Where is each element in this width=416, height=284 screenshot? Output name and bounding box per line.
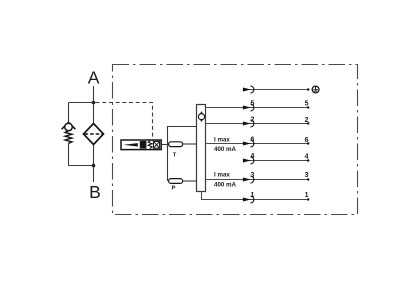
wire branch left lower xyxy=(68,143,70,165)
svg-text:5: 5 xyxy=(250,100,254,107)
wire pin 4 xyxy=(244,160,309,162)
wire branch top horizontal xyxy=(69,102,94,104)
svg-text:I max: I max xyxy=(214,136,230,143)
valve Y1 right element box xyxy=(153,141,159,148)
wire main line diamond to B xyxy=(93,144,95,182)
connector arrow pin 3 xyxy=(243,178,251,182)
node junction top xyxy=(92,101,96,105)
wire pin 5 xyxy=(206,107,309,109)
pilot dashed wire from junction to valve Y1 xyxy=(96,103,153,140)
svg-text:4: 4 xyxy=(250,153,254,160)
wire pin 6 xyxy=(206,143,309,145)
PE earth symbol xyxy=(312,86,319,93)
svg-text:4: 4 xyxy=(305,154,309,161)
wire pin 2 xyxy=(206,123,309,125)
svg-text:I max: I max xyxy=(214,172,230,179)
wire pin 1 from column bottom xyxy=(202,192,309,200)
node junction bottom xyxy=(92,164,96,168)
connector arrow pin 5 xyxy=(243,106,251,110)
spring of check valve V1 xyxy=(65,131,72,144)
svg-text:2: 2 xyxy=(250,117,254,124)
svg-text:6: 6 xyxy=(305,137,309,144)
connector arrow pin 1 xyxy=(243,198,251,202)
port T xyxy=(169,142,183,147)
connector arrow pin 6 xyxy=(243,142,251,146)
column U1 body xyxy=(197,105,206,192)
wire branch left upper xyxy=(68,103,70,124)
svg-text:3: 3 xyxy=(250,172,254,179)
svg-text:400 mA: 400 mA xyxy=(214,146,237,153)
svg-text:1: 1 xyxy=(250,192,254,199)
svg-text:400 mA: 400 mA xyxy=(214,182,237,189)
enclosure dash-dot border xyxy=(113,65,358,215)
svg-text:P: P xyxy=(172,186,176,192)
valve Y1 solenoid black square xyxy=(140,141,147,149)
svg-text:5: 5 xyxy=(305,101,309,108)
svg-text:A: A xyxy=(88,67,100,87)
valve Y1 spring xyxy=(148,141,152,149)
svg-text:6: 6 xyxy=(250,137,254,144)
svg-text:3: 3 xyxy=(305,172,309,179)
proportional valve Y1 body xyxy=(121,140,161,150)
wire port T to column xyxy=(183,143,197,145)
wire pin 3 xyxy=(206,179,309,181)
check valve V1 xyxy=(62,122,76,130)
wire main line A to diamond xyxy=(93,86,95,124)
port P xyxy=(169,179,183,184)
wire port P to column xyxy=(183,180,197,182)
svg-text:T: T xyxy=(173,153,177,159)
svg-text:1: 1 xyxy=(305,192,309,199)
sensor circle in column U1 xyxy=(198,111,204,122)
manifold block outline xyxy=(168,127,197,182)
orifice F1 diamond xyxy=(84,124,104,145)
svg-text:B: B xyxy=(89,182,101,202)
connector arrow pin 2 xyxy=(243,122,251,126)
connector arrow pin 4 xyxy=(243,159,251,163)
wire PE earth line xyxy=(244,89,309,91)
wire valve Y1 to port T xyxy=(161,144,168,146)
svg-text:2: 2 xyxy=(305,117,309,124)
valve Y1 arrow element xyxy=(124,143,138,146)
wire branch bottom horizontal xyxy=(69,165,94,167)
orifice F1 inner dashed line xyxy=(85,133,103,135)
connector arrow pin PE xyxy=(243,88,251,92)
